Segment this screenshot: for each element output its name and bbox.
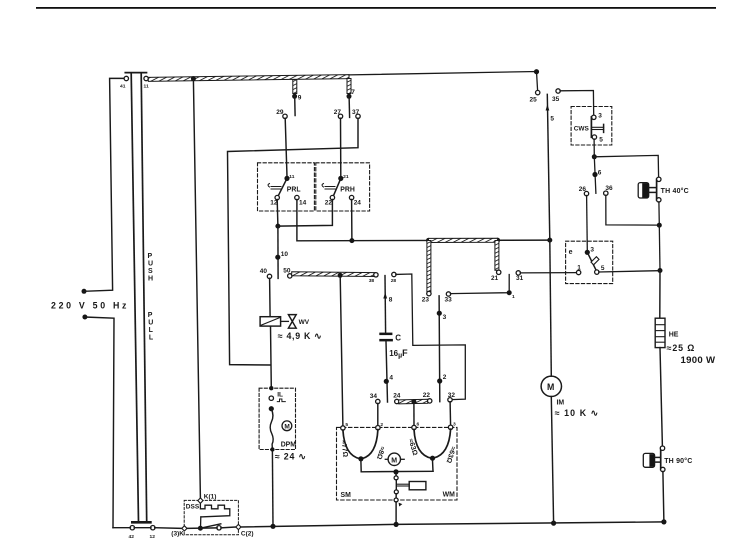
wire HE to TH90 <box>660 348 662 447</box>
svg-text:11: 11 <box>289 174 294 180</box>
svg-text:6: 6 <box>598 169 602 176</box>
node TH90 top contact <box>660 446 664 450</box>
node WM pin 3 <box>448 425 452 429</box>
svg-text:≈25 Ω: ≈25 Ω <box>667 343 696 353</box>
node protector contact b <box>394 490 398 494</box>
svg-text:2: 2 <box>380 422 383 428</box>
node pin 4 <box>384 379 389 384</box>
node SM pin 5 <box>341 426 345 430</box>
wire pins 3-2 line <box>438 296 441 402</box>
svg-text:U: U <box>148 320 153 327</box>
svg-text:CWS: CWS <box>574 125 590 132</box>
node terminal 28 <box>392 272 396 276</box>
svg-text:L: L <box>149 327 154 334</box>
node bus junction DPM <box>270 524 275 529</box>
node junction mid rail at line 5 <box>547 238 552 243</box>
svg-text:27: 27 <box>334 109 342 116</box>
svg-text:28: 28 <box>391 278 397 284</box>
relay PRL contact 12 <box>275 195 279 199</box>
node terminal 12 <box>151 526 155 530</box>
node terminal 38 <box>374 273 378 277</box>
wire junction to TH40 top <box>594 155 658 177</box>
svg-text:41: 41 <box>120 84 126 90</box>
svg-text:35: 35 <box>552 96 560 103</box>
node terminal 26 <box>584 191 588 195</box>
svg-text:220 V 50 Hz: 220 V 50 Hz <box>51 301 129 311</box>
node terminal 21 <box>497 270 501 274</box>
relay PRH spring <box>322 184 335 190</box>
wire bar junction down to SM pin 5 <box>340 276 343 427</box>
node junction DPM box bottom <box>270 447 274 451</box>
pressure switch e box <box>566 241 613 283</box>
winding SM right <box>362 430 378 459</box>
svg-text:M: M <box>391 457 397 464</box>
node e pin 3 <box>585 250 590 255</box>
wire pin 9 stub <box>294 96 296 115</box>
svg-text:L: L <box>149 335 154 342</box>
node pin 6 <box>592 172 597 177</box>
node terminal (3)K <box>182 526 187 531</box>
svg-text:24: 24 <box>393 393 401 400</box>
node terminal C(2) <box>236 524 241 529</box>
svg-text:C: C <box>395 334 401 343</box>
wire terminal 29 to PRL pin 11 <box>285 118 287 176</box>
svg-text:12: 12 <box>150 534 156 540</box>
node junction right rail at 36 <box>657 223 662 228</box>
svg-text:e: e <box>569 249 573 256</box>
svg-text:≈63Ω: ≈63Ω <box>407 438 419 457</box>
relay PRL box <box>258 163 315 211</box>
svg-text:WV: WV <box>299 319 310 326</box>
wire terminal 26 to e pin 3 <box>586 196 589 251</box>
svg-text:11: 11 <box>144 84 149 90</box>
wire M right lead <box>401 458 405 460</box>
relay PRH contact 22 <box>330 195 334 199</box>
capacitor C plates <box>379 333 392 336</box>
node CWS pin 5 <box>592 135 596 139</box>
svg-text:HE: HE <box>669 332 679 339</box>
svg-text:29: 29 <box>276 109 284 116</box>
svg-text:PRH: PRH <box>340 187 355 194</box>
node terminal 50 <box>288 274 292 278</box>
node junction mid rail at 23 bar <box>426 238 431 243</box>
node DSS bus junction <box>198 526 203 531</box>
wire protector link <box>395 480 397 490</box>
node WM winding junction <box>430 456 435 461</box>
relay PRL spring <box>268 184 281 190</box>
node terminal 22b <box>428 399 432 403</box>
node supply terminal N (220V bottom) <box>82 315 87 320</box>
node bus junction IM <box>551 521 556 526</box>
wire bottom bus <box>113 522 664 529</box>
svg-text:3: 3 <box>590 247 594 254</box>
svg-text:U: U <box>148 261 153 268</box>
wire PRH 24 down <box>351 200 353 241</box>
svg-text:≈8Ω: ≈8Ω <box>375 445 386 460</box>
valve WV body <box>288 315 296 322</box>
svg-text:31: 31 <box>516 275 524 282</box>
wire motor common to bottom bus <box>395 502 397 524</box>
heater HE element <box>655 318 665 347</box>
node IL junction <box>269 406 274 411</box>
svg-text:M: M <box>547 382 554 392</box>
switch DSS push-pull rod <box>125 73 150 523</box>
node pin 10 <box>275 255 280 260</box>
relay PRL blade <box>278 178 287 196</box>
node pin 7 <box>347 94 352 99</box>
svg-text:24: 24 <box>354 200 362 207</box>
label PULL <box>148 312 154 342</box>
svg-text:≈77Ω: ≈77Ω <box>340 440 349 458</box>
relay PRH contact 24 <box>349 195 353 199</box>
svg-text:21: 21 <box>343 174 349 180</box>
relay PRH box <box>316 163 370 211</box>
svg-text:4: 4 <box>389 375 393 382</box>
svg-text:P: P <box>148 312 153 319</box>
svg-text:S: S <box>148 268 153 275</box>
wire motor common rail <box>361 470 433 473</box>
wire hatched bar on mid rail <box>429 238 498 242</box>
node junction at DPM box top <box>269 386 273 390</box>
wire hatched drop to terminal 23 <box>427 241 431 292</box>
node junction stub 1 <box>507 290 512 295</box>
svg-text:50: 50 <box>283 267 291 274</box>
wire DPM to bottom bus <box>271 452 274 527</box>
node terminal 40 <box>267 274 271 278</box>
node pin 9 <box>292 94 297 99</box>
wire M left lead <box>385 458 388 460</box>
svg-text:≈ 24 ∿: ≈ 24 ∿ <box>275 451 307 461</box>
wire PRL 12 down to junction <box>276 200 279 227</box>
svg-text:6: 6 <box>417 422 420 428</box>
wire protector to box edge <box>395 494 397 499</box>
node junction on 24-22 bar <box>411 399 416 404</box>
svg-text:7: 7 <box>351 89 355 96</box>
node pin 2 <box>437 378 442 383</box>
relay PRL pin 11 <box>284 176 289 181</box>
svg-text:40: 40 <box>260 268 268 275</box>
svg-text:21: 21 <box>491 275 499 282</box>
svg-text:38: 38 <box>369 278 375 284</box>
svg-text:25: 25 <box>530 97 538 104</box>
wire terminal 28 to terminal 32 <box>396 274 466 400</box>
wire WM junction drop <box>432 460 435 471</box>
wire pin 7 stub <box>348 96 351 117</box>
node terminal 34 <box>376 399 380 403</box>
switch DSS blade <box>200 524 220 528</box>
svg-text:34: 34 <box>370 393 378 400</box>
label IL squiggle <box>277 399 285 402</box>
svg-text:37: 37 <box>352 109 360 116</box>
switch CWS contact bar <box>590 117 592 137</box>
node bus corner right <box>661 519 666 524</box>
wire stub pin 6 <box>594 157 596 194</box>
svg-text:1900 W: 1900 W <box>681 355 717 366</box>
wire common down to protector <box>395 472 397 476</box>
svg-text:42: 42 <box>129 534 135 540</box>
node junction 24 on mid rail <box>349 238 354 243</box>
wire 34 down to SM pin 2 <box>377 403 379 426</box>
wire hatched stub pin 9 <box>293 80 297 94</box>
svg-text:1: 1 <box>577 264 581 271</box>
label PUSH <box>148 253 154 283</box>
wire terminal 27 to PRH pin 21 <box>340 118 342 176</box>
wire hatched bar 24 to 22 <box>399 399 428 404</box>
wire hatched stub pin 7 <box>347 79 351 94</box>
node terminal 32 <box>448 398 452 402</box>
node motor common junction <box>393 469 398 474</box>
node terminal 27 <box>338 114 342 118</box>
wire e pin 5 to right rail <box>599 271 658 272</box>
svg-text:3: 3 <box>443 314 447 321</box>
node terminal 29 <box>283 114 287 118</box>
motor M symbol of DPM <box>282 421 292 431</box>
wire 32 down to WM pin 3 <box>449 402 452 427</box>
switch DSS box <box>184 500 238 534</box>
svg-text:IM: IM <box>557 399 565 406</box>
svg-text:10: 10 <box>281 251 289 258</box>
thermostat TH90 body <box>643 448 660 469</box>
svg-text:36: 36 <box>605 185 613 192</box>
svg-text:H: H <box>148 276 153 283</box>
wire CWS pin 5 down to junction <box>593 139 595 157</box>
svg-text:M: M <box>284 423 289 430</box>
svg-text:5: 5 <box>345 422 348 428</box>
wire hatched bar 50 to 38 <box>292 272 375 277</box>
wire right rail down to e junction <box>658 225 661 270</box>
node junction on top bus <box>191 76 196 81</box>
motor M symbol of SM/WM <box>388 453 400 465</box>
wire N terminal down to bottom bus <box>85 317 114 528</box>
node e pin 1 <box>576 270 580 274</box>
node terminal 24b <box>395 399 399 403</box>
relay PRH pin 21 <box>338 176 343 181</box>
top border rule <box>36 7 716 9</box>
node WM pin 6 <box>412 425 416 429</box>
wire line 5 vertical to IM <box>547 94 550 240</box>
node junction 12/22 <box>275 224 280 229</box>
wire junction down to pin 10 stub <box>277 226 279 278</box>
wire bar junction down to WM pin 6 <box>413 402 415 427</box>
svg-text:14: 14 <box>299 200 307 207</box>
svg-text:IL: IL <box>277 391 283 398</box>
svg-text:16µF: 16µF <box>389 348 408 360</box>
node junction right rail at e <box>658 268 663 273</box>
wire mid rail junction down to motor IM <box>550 240 552 376</box>
node corner dot above 25 <box>534 69 539 74</box>
wire terminal 35 to CWS pin 3 <box>560 91 594 116</box>
svg-text:DPM: DPM <box>281 441 297 448</box>
wire terminal 36 to right rail <box>606 195 657 225</box>
svg-text:TH 40°C: TH 40°C <box>661 187 689 195</box>
wire PRH 22 to junction <box>278 200 332 227</box>
svg-text:5: 5 <box>599 137 603 144</box>
svg-text:26: 26 <box>579 186 587 193</box>
node IL contact <box>269 396 273 400</box>
switch CWS actuator <box>592 124 603 132</box>
wire SM junction drop <box>360 461 362 472</box>
wire top bus junction down to K(1) <box>193 79 200 498</box>
node terminal 31 <box>516 271 520 275</box>
svg-text:5: 5 <box>550 116 554 123</box>
node terminal 25 <box>536 90 540 94</box>
pump box IL DPM <box>259 388 295 449</box>
svg-text:≈ 10 K ∿: ≈ 10 K ∿ <box>555 408 599 418</box>
svg-text:K(1): K(1) <box>204 493 217 500</box>
switch CWS box <box>571 107 612 146</box>
node SM pin 2 <box>376 426 380 430</box>
valve WV stem <box>281 320 289 322</box>
svg-text:32: 32 <box>448 392 456 399</box>
wire right rail to HE <box>659 271 661 319</box>
node terminal 37 <box>356 114 360 118</box>
node terminal 41 <box>124 76 128 80</box>
wire terminal 40 down through WV to DPM <box>269 278 272 316</box>
svg-text:PRL: PRL <box>287 187 301 194</box>
svg-text:SM: SM <box>341 492 352 499</box>
node terminal 36 <box>604 191 608 195</box>
node junction below CWS <box>592 154 597 159</box>
wire terminal 37 to water valve node <box>228 118 359 365</box>
svg-text:2: 2 <box>443 374 447 381</box>
wire hatched drop to terminal 21 <box>495 241 499 271</box>
node TH40 top contact <box>657 177 661 181</box>
node junction mid rail at 21 bar <box>495 238 500 243</box>
node junction on 50-38 bar <box>338 273 343 278</box>
relay PRH blade <box>333 178 340 196</box>
node bus junction motors <box>394 522 399 527</box>
thermostat TH40 body <box>638 179 656 200</box>
node pin 5 arrow <box>546 104 550 110</box>
thermal protector actuator <box>397 482 426 490</box>
node terminal 11 <box>144 76 148 80</box>
node pin 3 <box>437 311 442 316</box>
wire TH40 to junction 36 <box>658 202 660 225</box>
svg-text:DSS: DSS <box>186 504 200 511</box>
node e pin 5 <box>595 270 599 274</box>
capacitor C bottom stub pin 4 <box>386 341 388 402</box>
valve WV coil <box>260 317 281 326</box>
node box edge terminal <box>394 498 398 502</box>
wire top hatched bus bar 11 to 7 <box>148 75 349 82</box>
switch e flag <box>591 257 599 265</box>
wire L terminal to left rail <box>84 78 124 291</box>
node terminal 43 <box>130 526 134 530</box>
svg-text:P: P <box>148 253 153 260</box>
node terminal K(1) <box>198 498 203 503</box>
node CWS pin 3 <box>592 115 596 119</box>
wire TH90 to bottom bus corner <box>663 471 664 522</box>
motor IM circle <box>541 376 561 396</box>
node SM winding junction <box>358 456 363 461</box>
node pin 8 arrow <box>383 292 387 298</box>
node pin 4 arrow of motor <box>399 503 403 507</box>
node supply terminal L (220V top) <box>82 289 87 294</box>
capacitor C top stub pin 8 <box>384 276 387 333</box>
svg-text:≈ 4,9 K ∿: ≈ 4,9 K ∿ <box>278 331 322 341</box>
svg-text:33: 33 <box>445 297 453 304</box>
node terminal 23 <box>427 291 431 295</box>
winding DPM wavy <box>270 409 273 450</box>
winding WM right <box>434 429 451 458</box>
motor box SM WM <box>337 427 458 500</box>
relay PRL contact 14 <box>295 195 299 199</box>
wire IM to bottom bus <box>551 397 553 523</box>
wire top bus to terminal 25 corner <box>349 72 538 91</box>
wire PRL 14 to mid rail <box>297 200 550 241</box>
winding SM left <box>343 430 360 459</box>
node TH90 bottom contact <box>661 467 665 471</box>
node terminal 33 <box>446 292 450 296</box>
svg-text:22: 22 <box>423 392 431 399</box>
node TH40 bottom contact <box>657 198 661 202</box>
svg-text:3: 3 <box>598 112 602 119</box>
winding WM left <box>414 429 432 458</box>
svg-text:5: 5 <box>601 265 605 272</box>
wire key to bus junction <box>200 517 202 528</box>
svg-text:C(2): C(2) <box>241 531 254 538</box>
svg-text:3: 3 <box>453 421 456 427</box>
switch DSS key profile <box>200 503 229 517</box>
svg-text:WM: WM <box>443 491 456 498</box>
wire terminal 33 to stub 1 <box>450 275 509 294</box>
svg-text:(3)K: (3)K <box>171 531 184 538</box>
svg-text:8: 8 <box>389 297 393 304</box>
wire terminal 31 to pressure switch e pin 1 <box>520 272 577 274</box>
switch e blade <box>587 252 596 270</box>
svg-text:22: 22 <box>325 200 333 207</box>
svg-text:1: 1 <box>512 294 515 300</box>
svg-text:9: 9 <box>298 95 302 102</box>
svg-text:TH 90°C: TH 90°C <box>664 457 692 465</box>
node DSS fixed contact <box>217 526 221 530</box>
svg-text:23: 23 <box>422 297 430 304</box>
node protector contact a <box>394 476 398 480</box>
node terminal 35 <box>556 89 560 93</box>
